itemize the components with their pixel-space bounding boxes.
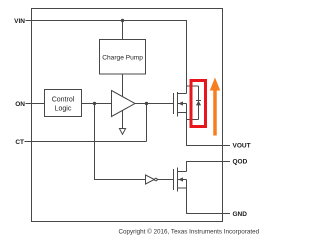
svg-text:ON: ON xyxy=(15,101,25,108)
svg-text:Charge Pump: Charge Pump xyxy=(102,54,143,61)
svg-text:Copyright © 2016, Texas Instru: Copyright © 2016, Texas Instruments Inco… xyxy=(118,228,259,236)
svg-text:Control: Control xyxy=(52,96,75,103)
svg-text:VIN: VIN xyxy=(14,18,25,25)
svg-text:GND: GND xyxy=(233,211,248,218)
svg-text:Logic: Logic xyxy=(55,105,72,112)
svg-text:QOD: QOD xyxy=(233,159,248,166)
svg-text:CT: CT xyxy=(15,139,24,146)
svg-text:VOUT: VOUT xyxy=(233,142,251,149)
